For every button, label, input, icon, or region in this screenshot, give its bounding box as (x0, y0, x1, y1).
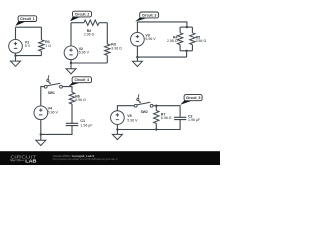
wire: V4 bottom stub (40, 120, 42, 135)
svg-text:1.96 µF: 1.96 µF (80, 124, 93, 128)
svg-text:SW2: SW2 (141, 110, 148, 114)
resistor R3 (105, 44, 110, 55)
resistor R1 (39, 40, 44, 52)
annotation flag Circuit_2 (70, 16, 80, 21)
svg-text:Circuit_4: Circuit_4 (75, 78, 90, 82)
switch SW1 (44, 85, 47, 88)
resistor R5 (190, 33, 195, 45)
svg-text:http://www.circuitlab.com/c/4v: http://www.circuitlab.com/c/4vb85q/luong… (53, 157, 119, 161)
wire: C1 to bottom rail (41, 126, 72, 135)
wire: R6 to C1 (71, 104, 73, 123)
voltage source V4 (34, 106, 48, 120)
wire: Circuit_2 top-right segment (99, 22, 107, 24)
wire: V2 stubs (70, 23, 72, 63)
resistor R6 (69, 92, 74, 104)
wire: V3 stubs (136, 22, 138, 57)
svg-text:3.56 Ω: 3.56 Ω (196, 39, 207, 43)
wire: bus drop to bottom rail (186, 51, 188, 57)
annotation flag Circuit_4 (69, 82, 81, 86)
svg-text:2.96 Ω: 2.96 Ω (84, 33, 95, 37)
ground (Circuit_1) (15, 56, 17, 62)
voltage source V3 (131, 32, 145, 46)
wire: R7 stubs (155, 106, 157, 130)
junction node bottom bus (185, 50, 187, 52)
voltage source V5 (111, 111, 125, 125)
footer watermark bar (0, 151, 220, 165)
wire: Circuit_3 bottom rail (137, 56, 186, 58)
wire: V5 top corner to switch SW2 (117, 106, 134, 111)
junction node at V3 bottom (136, 56, 138, 58)
svg-text:5.96 V: 5.96 V (48, 110, 59, 114)
resistor R4 (177, 33, 182, 45)
wire: Circuit_2 top-left segment (71, 22, 84, 24)
wire: Circuit_3 top rail (137, 22, 187, 27)
CircuitLab logo: trace squiggle (10, 159, 17, 161)
ground (Circuit_5) (116, 130, 118, 135)
svg-text:3.96 Ω: 3.96 Ω (111, 47, 122, 51)
ground (Circuit_2) (70, 63, 72, 69)
wire: parallel top bus (180, 26, 192, 28)
ground (Circuit_3) (136, 57, 138, 61)
svg-text:Circuit_3: Circuit_3 (142, 13, 157, 17)
junction node R7 top (155, 105, 157, 107)
svg-text:6.96 Ω: 6.96 Ω (161, 116, 172, 120)
svg-text:C1: C1 (80, 119, 85, 123)
svg-text:6.96 Ω: 6.96 Ω (75, 98, 86, 102)
wire: Circuit_1 bottom rail (16, 55, 42, 57)
wire: R4 stubs (179, 27, 181, 51)
svg-text:LAB: LAB (25, 159, 37, 164)
resistor R7 (154, 111, 159, 124)
junction node at V1 bottom (14, 54, 16, 56)
wire: R5 stubs (191, 27, 193, 51)
svg-text:Circuit_1: Circuit_1 (20, 17, 35, 21)
switch SW2 (134, 104, 137, 107)
wire: Circuit_2 bottom rail (71, 62, 107, 64)
voltage source V1 (9, 39, 23, 53)
svg-text:2.56 Ω: 2.56 Ω (167, 39, 178, 43)
annotation flag Circuit_5 (180, 100, 192, 105)
wire: V1 stubs (15, 27, 17, 55)
capacitor C2 (174, 117, 186, 119)
wire: V5 bottom stub (116, 125, 118, 130)
junction node at V4 bottom (40, 133, 42, 135)
wire: V4 top corner to switch SW1 (41, 87, 45, 106)
voltage source V2 (64, 46, 78, 60)
wire: C2 to bottom rail (117, 120, 180, 130)
wire: SW2 to C2 top (153, 106, 180, 117)
wire: R1 stubs (40, 27, 42, 55)
capacitor C1 (66, 123, 78, 125)
svg-text:1 Ω: 1 Ω (45, 44, 51, 48)
svg-text:Circuit_5: Circuit_5 (186, 96, 201, 100)
resistor R2 (horizontal) (84, 20, 99, 25)
ground (Circuit_4) (40, 134, 42, 140)
svg-text:5.96 V: 5.96 V (127, 118, 138, 122)
annotation flag Circuit_1 (15, 21, 26, 26)
svg-text:5.56 V: 5.56 V (145, 37, 156, 41)
svg-text:5 V: 5 V (25, 44, 31, 48)
annotation flag Circuit_3 (135, 17, 148, 21)
svg-text:5.96 V: 5.96 V (79, 50, 90, 54)
svg-text:Circuit_2: Circuit_2 (75, 12, 90, 16)
wire: Circuit_1 top rail (16, 26, 42, 28)
wire: R3 stubs (106, 23, 108, 63)
junction node at R7 bottom (155, 128, 157, 130)
wire: parallel bottom bus (180, 50, 192, 52)
junction node at V5 bottom (116, 128, 118, 130)
svg-text:SW1: SW1 (48, 91, 55, 95)
junction node at V2 bottom (70, 62, 72, 64)
junction node top bus (186, 26, 188, 28)
svg-text:1.96 µF: 1.96 µF (188, 118, 201, 122)
wire: SW1 to R6 top (62, 87, 72, 93)
